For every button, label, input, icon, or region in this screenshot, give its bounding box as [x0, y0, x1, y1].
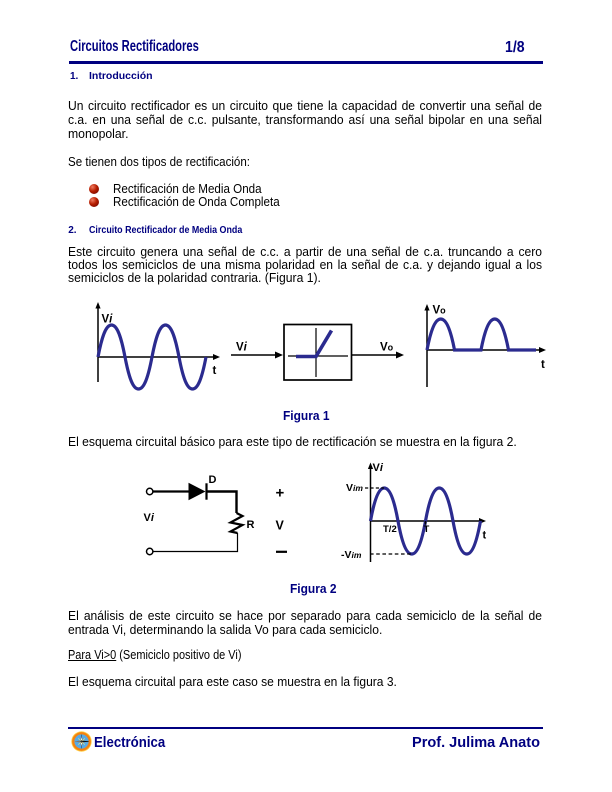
svg-text:t: t [213, 365, 217, 377]
svg-text:t: t [541, 359, 545, 371]
fig2 sine wave Vi [371, 488, 481, 554]
paragraph 3 [68, 245, 542, 271]
bullet 1 [89, 184, 100, 195]
wire resistor to bottom and to terminal [153, 533, 237, 552]
header rule [69, 61, 544, 64]
svg-text:Vo: Vo [380, 342, 394, 354]
svg-text:Vo: Vo [433, 305, 447, 317]
label minus [276, 551, 287, 553]
fig1 left plot: horizontal axis t [98, 356, 214, 358]
fig1 right plot: rectified output wave [427, 319, 536, 350]
fig1 left plot: vertical axis Vi [97, 306, 99, 382]
caption Figura 1 [283, 409, 330, 422]
fig1 right plot: horizontal axis [427, 349, 540, 351]
svg-text:D: D [209, 474, 217, 486]
svg-text:+: + [276, 485, 285, 502]
svg-text:V: V [276, 519, 285, 533]
footer logo [71, 731, 92, 752]
diode D [189, 483, 206, 500]
diode D cathode bar [205, 483, 207, 499]
fig1 box crosshair vertical [315, 328, 317, 377]
paragraph 6: Para Vi>0 [68, 648, 241, 661]
section 1 heading [70, 72, 78, 82]
dashed line Vim to peak [365, 487, 384, 489]
wire top from terminal to diode [153, 490, 188, 492]
tick at T [425, 521, 427, 525]
terminal bottom-left [147, 548, 153, 554]
FIGURE 2 [0, 458, 612, 576]
footer right text [412, 735, 540, 750]
paragraph 2 [68, 155, 250, 168]
fig1 input arrow into box [231, 354, 277, 356]
footer rule [68, 727, 544, 730]
FIGURE 1 [0, 295, 612, 407]
fig1 left plot: input sine wave Vi [98, 325, 206, 389]
dashed line -Vim to trough [370, 553, 411, 555]
wire from diode to corner [208, 492, 237, 514]
svg-text:R: R [247, 519, 255, 531]
paragraph 5 [68, 610, 542, 623]
resistor R zigzag [231, 513, 243, 533]
fig1 rectifier box [284, 325, 352, 381]
fig1 transfer characteristic [296, 331, 332, 357]
svg-text:Vi: Vi [144, 512, 155, 524]
svg-text:T/2: T/2 [383, 524, 397, 535]
paragraph 4 [68, 435, 517, 448]
page number 1/8 [505, 40, 525, 56]
svg-text:t: t [483, 530, 487, 542]
footer left text [94, 735, 165, 750]
fig2 plot horizontal axis [371, 520, 481, 522]
svg-text:Vi: Vi [102, 314, 114, 326]
fig1 output arrow [352, 354, 398, 356]
fig1 right plot: vertical axis [426, 308, 428, 387]
paragraph 7 [68, 675, 397, 688]
caption Figura 2 [290, 582, 337, 595]
svg-text:Vi: Vi [236, 342, 248, 354]
section 2 heading [68, 226, 76, 236]
svg-text:-Vim: -Vim [341, 549, 362, 561]
bullet 2 [89, 197, 100, 208]
terminal top-left [147, 488, 153, 494]
fig2 plot vertical axis [370, 466, 372, 562]
svg-text:Vi: Vi [373, 462, 384, 474]
header title [70, 39, 199, 55]
svg-text:T: T [424, 524, 430, 535]
fig1 box crosshair horizontal [288, 355, 348, 357]
svg-text:Vim: Vim [346, 482, 363, 494]
paragraph 1 [68, 99, 542, 126]
